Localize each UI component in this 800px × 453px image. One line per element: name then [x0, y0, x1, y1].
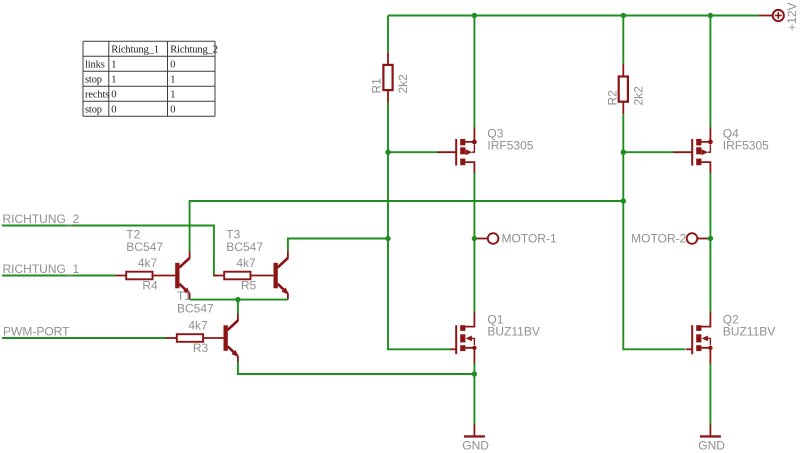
resistor R3 [166, 334, 226, 342]
net PWM-PORT wire [2, 337, 167, 339]
resistor R5 [214, 272, 274, 280]
svg-text:2k2: 2k2 [396, 74, 410, 94]
ground GND2 [700, 424, 721, 437]
supply symbol +12V [773, 2, 799, 30]
wire +12V supply stub [759, 15, 773, 17]
svg-text:1: 1 [111, 75, 116, 86]
svg-text:0: 0 [170, 105, 175, 116]
wire +12V rail [388, 15, 759, 17]
svg-text:R3: R3 [193, 341, 209, 355]
transistor T1 [224, 314, 239, 362]
wire rail to Q4 source [709, 16, 711, 128]
svg-text:R1: R1 [370, 78, 384, 94]
svg-text:rechts: rechts [85, 90, 109, 101]
node junction T1 collector [235, 297, 240, 302]
svg-text:1: 1 [111, 60, 116, 71]
svg-text:+12V: +12V [785, 2, 799, 30]
svg-text:IRF5305: IRF5305 [487, 138, 533, 152]
svg-text:MOTOR-2: MOTOR-2 [631, 231, 686, 245]
svg-text:4k7: 4k7 [236, 256, 256, 270]
node junction T2C-R2 [621, 198, 626, 203]
svg-text:0: 0 [111, 90, 116, 101]
svg-text:GND: GND [462, 438, 489, 452]
net RICHTUNG_2 wire [2, 226, 217, 276]
wire rail to R1 [387, 16, 389, 53]
svg-text:2k2: 2k2 [632, 86, 646, 106]
node junction gate Q3 [385, 150, 390, 155]
svg-text:stop: stop [85, 105, 102, 116]
svg-text:4k7: 4k7 [138, 256, 158, 270]
node junction rail-Q3 [472, 13, 477, 18]
mosfet Q1 [450, 312, 476, 364]
node junction T3C [385, 236, 390, 241]
svg-text:PWM-PORT: PWM-PORT [3, 325, 70, 339]
svg-text:Richtung_1: Richtung_1 [111, 45, 159, 56]
op mosfet Q3 [437, 127, 477, 173]
wire emitter bus T2-T3 [190, 299, 288, 301]
svg-text:R4: R4 [142, 278, 158, 292]
resistor R1 [383, 52, 392, 102]
svg-text:4k7: 4k7 [188, 318, 208, 332]
svg-text:0: 0 [170, 60, 175, 71]
wire Q4 drain to Q2 drain [709, 173, 711, 312]
node junction gate Q4 [621, 150, 626, 155]
svg-text:Richtung_2: Richtung_2 [170, 45, 218, 56]
pad MOTOR-2 [687, 233, 711, 244]
svg-text:BC547: BC547 [177, 301, 214, 315]
table truth-table [83, 41, 215, 116]
svg-text:stop: stop [85, 75, 102, 86]
svg-text:GND: GND [698, 438, 725, 452]
svg-text:BUZ11BV: BUZ11BV [723, 325, 775, 339]
svg-text:0: 0 [111, 105, 116, 116]
net RICHTUNG_1 wire [2, 275, 116, 277]
wire Q3 gate branch [388, 151, 438, 153]
svg-text:RICHTUNG_1: RICHTUNG_1 [3, 262, 80, 276]
svg-text:1: 1 [170, 75, 175, 86]
wire Q1 source to GND [473, 364, 475, 425]
wire T1 collector [237, 300, 239, 314]
svg-text:BC547: BC547 [226, 240, 263, 254]
wire rail to R2 [622, 16, 624, 64]
op mosfet Q4 [673, 127, 713, 173]
node junction Q1 source emitter wire [472, 371, 477, 376]
mosfet Q2 [686, 312, 712, 364]
svg-text:RICHTUNG_2: RICHTUNG_2 [3, 212, 80, 226]
node junction rail-Q4 [708, 13, 713, 18]
wire T1 emitter to Q1 source [238, 362, 475, 375]
wire T2 collector to R2 net [190, 201, 624, 252]
node junction rail-R2 [621, 13, 626, 18]
svg-text:MOTOR-1: MOTOR-1 [502, 231, 557, 245]
resistor R2 [619, 64, 628, 114]
resistor R4 [116, 272, 176, 280]
table row stop2 [85, 105, 175, 116]
transistor T2 [175, 251, 190, 299]
svg-text:links: links [85, 60, 105, 71]
table row links [85, 60, 175, 71]
wire R1 to Q1 gate [388, 103, 451, 350]
svg-text:BC547: BC547 [126, 240, 163, 254]
ground GND1 [464, 424, 485, 437]
pad MOTOR-1 [474, 233, 498, 244]
svg-text:BUZ11BV: BUZ11BV [487, 325, 539, 339]
svg-text:R5: R5 [241, 278, 257, 292]
wire rail to Q3 source [473, 16, 475, 128]
wire T3 collector to net [288, 239, 388, 252]
svg-text:1: 1 [170, 90, 175, 101]
wire Q4 gate branch [623, 151, 674, 153]
wire R2 to Q2 gate [623, 114, 685, 349]
transistor T3 [274, 251, 289, 299]
table row stop1 [85, 75, 175, 86]
svg-text:IRF5305: IRF5305 [723, 138, 769, 152]
table row rechts [85, 90, 175, 101]
svg-text:R2: R2 [606, 90, 620, 106]
node junction MOTOR-1 [472, 236, 477, 241]
wire Q2 source to GND [709, 364, 711, 425]
node junction MOTOR-2 [708, 236, 713, 241]
wire Q3 drain to Q1 drain [473, 173, 475, 312]
